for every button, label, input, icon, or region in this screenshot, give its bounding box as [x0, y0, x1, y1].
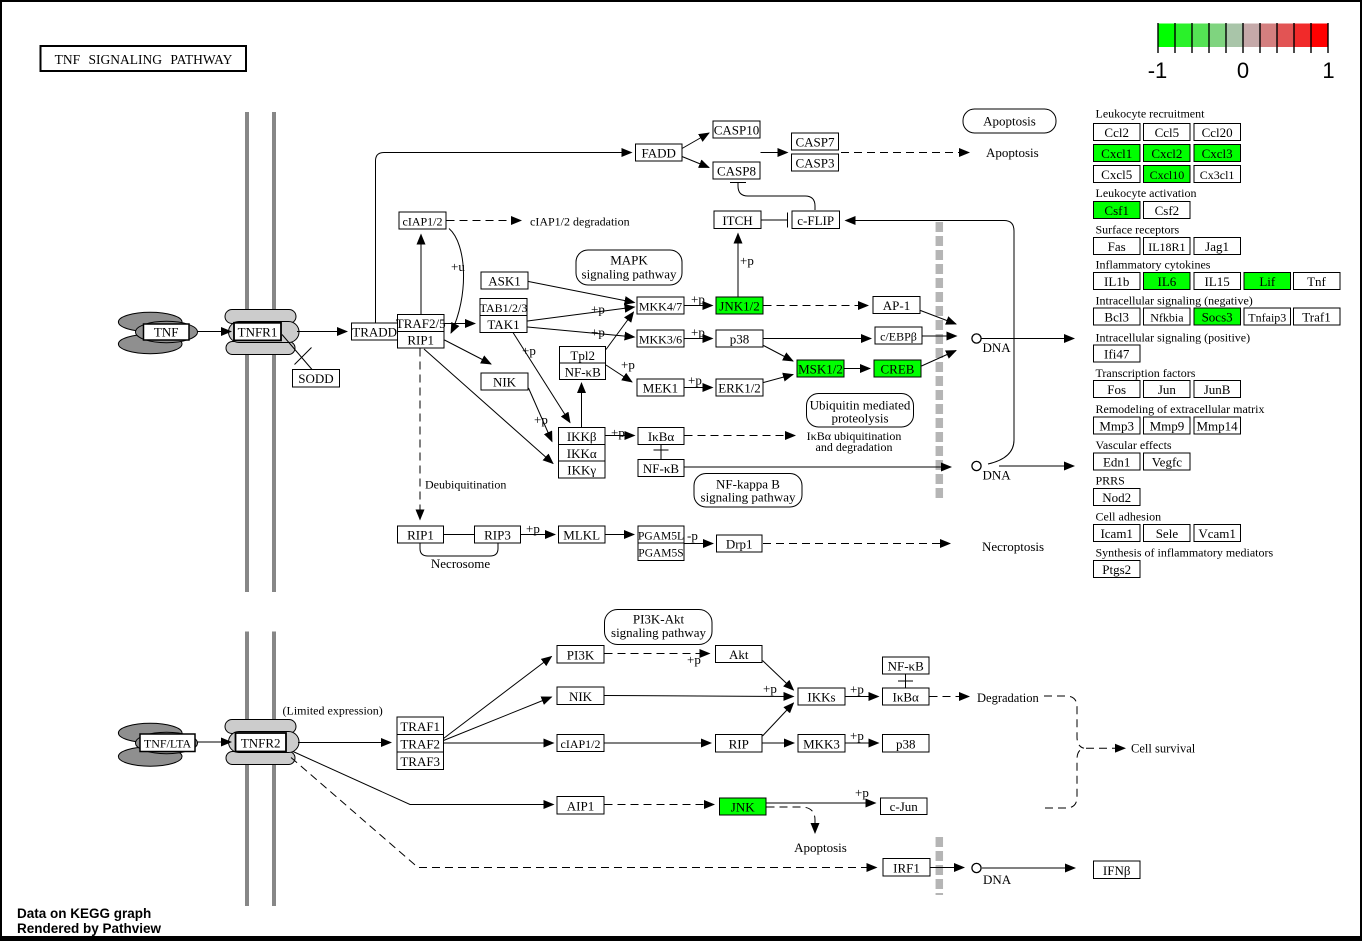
nuclear membrane upper (gray dashed bar) — [936, 222, 944, 501]
box IL18R1 — [1144, 238, 1191, 255]
svg-text:signaling pathway: signaling pathway — [582, 267, 677, 282]
svg-text:Cell survival: Cell survival — [1131, 742, 1196, 756]
svg-text:ITCH: ITCH — [722, 213, 752, 228]
svg-text:Sele: Sele — [1156, 526, 1179, 541]
box IFNb — [1094, 861, 1141, 879]
box Fas — [1094, 238, 1141, 255]
arrow FADD to CASP8 — [682, 157, 709, 168]
svg-text:Apoptosis: Apoptosis — [794, 840, 847, 855]
svg-text:DNA: DNA — [983, 340, 1012, 355]
arrow JNK1/2 up to ITCH — [737, 234, 739, 298]
svg-text:MLKL: MLKL — [563, 528, 600, 543]
box Cxcl1 — [1094, 145, 1141, 162]
svg-text:Icam1: Icam1 — [1100, 526, 1132, 541]
svg-text:TRAF1: TRAF1 — [400, 719, 440, 734]
box CASP10 — [713, 121, 760, 138]
box p38 — [716, 330, 763, 347]
label IkBa ubiquitination and degradation — [807, 429, 902, 454]
box Mmp14 — [1194, 417, 1241, 434]
arrow FADD to CASP10 — [682, 133, 709, 149]
arrow TAK1 to MKK4/7 — [528, 307, 635, 321]
box CASP3 — [792, 154, 839, 171]
box MKK4/7 — [637, 297, 684, 314]
arrow Tpl2 to MEK1 — [606, 365, 632, 382]
box Nfkbia — [1144, 308, 1191, 325]
box CASP7 — [792, 133, 839, 150]
box NF-kB — [638, 459, 684, 476]
box p38 (lower) — [883, 735, 930, 753]
box AP-1 — [873, 297, 920, 314]
svg-text:+p: +p — [522, 343, 536, 358]
necrosome bracket — [420, 544, 498, 557]
svg-text:-p: -p — [687, 528, 698, 543]
svg-text:IL15: IL15 — [1204, 274, 1229, 289]
box Cxcl3 — [1194, 145, 1241, 162]
svg-text:+p: +p — [763, 681, 777, 696]
box Traf1 — [1293, 308, 1340, 325]
box IRF1 — [883, 859, 930, 877]
box CASP8 — [713, 162, 760, 179]
color key bar — [1158, 23, 1328, 53]
arrow RIP to IKKs — [763, 703, 794, 736]
arrow MSK1/2 to CREB — [845, 368, 871, 370]
arrow p38 to c/EBPb — [764, 338, 872, 340]
svg-text:Mmp14: Mmp14 — [1197, 419, 1239, 434]
curve +u cIAP1/2 to RIP1 — [449, 229, 464, 334]
box Ifi47 — [1094, 345, 1141, 362]
svg-text:p38: p38 — [730, 332, 750, 347]
svg-text:p38: p38 — [896, 737, 916, 752]
svg-text:Intracellular signaling (posit: Intracellular signaling (positive) — [1096, 331, 1251, 345]
svg-text:Rendered by Pathview: Rendered by Pathview — [17, 921, 162, 936]
box NF-kB (lower) — [883, 657, 930, 674]
arrow ERK1/2 to MSK1/2 — [764, 375, 794, 383]
svg-text:Apoptosis: Apoptosis — [986, 145, 1039, 160]
wire TNFR1 to SODD (blocked) — [282, 335, 312, 370]
svg-text:ERK1/2: ERK1/2 — [718, 381, 761, 396]
svg-text:TAB1/2/3: TAB1/2/3 — [480, 301, 528, 315]
svg-text:IKKγ: IKKγ — [567, 463, 596, 478]
arrow cIAP1/2 to RIP — [605, 742, 712, 744]
dashed arrow AIP1 to JNK — [605, 804, 715, 806]
svg-text:Deubiquitination: Deubiquitination — [425, 478, 506, 492]
svg-text:NIK: NIK — [493, 375, 517, 390]
svg-text:Cxcl1: Cxcl1 — [1101, 146, 1132, 161]
box TAK1 — [480, 316, 527, 333]
svg-text:Vcam1: Vcam1 — [1198, 526, 1236, 541]
box IKKa — [559, 444, 606, 461]
svg-text:NIK: NIK — [569, 689, 593, 704]
svg-text:c-Jun: c-Jun — [890, 799, 919, 814]
svg-text:IKKα: IKKα — [567, 446, 597, 461]
svg-text:+p: +p — [740, 253, 754, 268]
box Akt — [716, 646, 763, 663]
arrow TNF to TNFR1 — [198, 331, 232, 333]
wire DNA to c-FLIP (return line) — [846, 221, 1015, 465]
svg-text:MKK4/7: MKK4/7 — [639, 300, 682, 314]
box NIK — [481, 373, 528, 390]
svg-text:Socs3: Socs3 — [1202, 310, 1233, 325]
inhibition NF-kB to IkBa — [898, 675, 913, 688]
svg-text:MAPK: MAPK — [610, 253, 648, 268]
svg-text:DNA: DNA — [983, 872, 1012, 887]
box Edn1 — [1094, 453, 1141, 470]
svg-text:Surface receptors: Surface receptors — [1096, 223, 1180, 237]
svg-text:Cxcl10: Cxcl10 — [1150, 168, 1185, 182]
svg-text:Inflammatory cytokines: Inflammatory cytokines — [1096, 258, 1211, 272]
svg-text:IKKβ: IKKβ — [567, 429, 597, 444]
box c/EBPb — [875, 327, 922, 344]
svg-text:Cx3cl1: Cx3cl1 — [1200, 168, 1235, 182]
arrow Tpl2 to MKK4/7 — [606, 312, 634, 350]
box ASK1 — [481, 272, 528, 289]
arrow TNFR2 to TRAF complex — [298, 742, 391, 744]
arrow IKKb up to NF-kB(Tpl2) — [581, 383, 583, 428]
box cIAP1/2 (lower) — [557, 735, 604, 752]
arrow TRAF to cIAP1/2 — [444, 742, 554, 744]
svg-text:cIAP1/2 degradation: cIAP1/2 degradation — [530, 215, 630, 229]
arrow p38 to MSK1/2 — [764, 346, 794, 362]
svg-text:MSK1/2: MSK1/2 — [798, 362, 843, 377]
svg-text:Csf1: Csf1 — [1104, 203, 1129, 218]
svg-text:TRAF2/5: TRAF2/5 — [396, 316, 446, 331]
wire TNFR2 to AIP1 — [293, 752, 554, 805]
svg-text:Cxcl2: Cxcl2 — [1151, 146, 1182, 161]
box Lif — [1244, 273, 1291, 290]
svg-text:FADD: FADD — [641, 146, 675, 161]
box Vcam1 — [1194, 525, 1241, 542]
svg-text:RIP1: RIP1 — [407, 333, 434, 348]
box RIP — [716, 735, 763, 753]
arrow IKKs to IkBa — [846, 696, 879, 698]
box Icam1 — [1094, 525, 1141, 542]
arrow JNK to c-Jun — [767, 802, 876, 804]
box c-FLIP — [792, 211, 840, 229]
svg-text:Csf2: Csf2 — [1155, 203, 1180, 218]
box Tnf — [1293, 273, 1340, 290]
svg-text:Degradation: Degradation — [977, 691, 1040, 705]
svg-text:Data on KEGG graph: Data on KEGG graph — [17, 906, 151, 921]
arrow PGAM5 to Drp1 — [685, 543, 714, 545]
svg-text:Remodeling of extracellular ma: Remodeling of extracellular matrix — [1096, 402, 1265, 416]
box RIP1 (necroptosis) — [398, 526, 444, 543]
svg-text:AP-1: AP-1 — [883, 298, 910, 313]
svg-text:CASP10: CASP10 — [714, 123, 760, 138]
box AIP1 — [557, 797, 604, 815]
box cIAP1/2 — [399, 212, 446, 229]
svg-text:MKK3: MKK3 — [803, 737, 840, 752]
svg-text:+p: +p — [850, 728, 864, 743]
svg-text:Ptgs2: Ptgs2 — [1102, 562, 1131, 577]
dashed arrow JNK to Apoptosis — [767, 807, 816, 833]
arrow AP-1 to DNA — [921, 311, 957, 325]
arrow MKK3/6 to p38 — [685, 338, 713, 340]
node DNA 1 circle — [972, 334, 981, 343]
box NF-kB (Tpl2 complex) — [560, 363, 606, 380]
svg-text:ASK1: ASK1 — [488, 274, 521, 289]
svg-text:Leukocyte recruitment: Leukocyte recruitment — [1096, 107, 1206, 121]
box Mmp9 — [1144, 417, 1191, 434]
svg-text:+p: +p — [526, 521, 540, 536]
title box TNF SIGNALING PATHWAY — [41, 46, 247, 71]
box TNFR2 — [236, 733, 287, 752]
svg-text:Drp1: Drp1 — [726, 537, 753, 552]
svg-text:Lif: Lif — [1259, 274, 1276, 289]
box NIK (lower) — [557, 687, 604, 705]
svg-text:Bcl3: Bcl3 — [1104, 310, 1129, 325]
box SODD — [293, 370, 340, 388]
nuclear membrane lower (gray dashed bar) — [936, 837, 944, 895]
svg-text:MKK3/6: MKK3/6 — [639, 333, 682, 347]
wire TRADD up to FADD — [376, 153, 632, 324]
svg-text:Edn1: Edn1 — [1103, 455, 1130, 470]
svg-text:+p: +p — [687, 652, 701, 667]
box Cxcl5 — [1094, 166, 1141, 183]
box IKKb — [559, 428, 606, 445]
svg-text:Necrosome: Necrosome — [431, 556, 490, 571]
box TRAF3 — [397, 752, 444, 770]
box PGAM5S — [638, 543, 684, 561]
svg-text:CREB: CREB — [881, 362, 915, 377]
svg-text:1: 1 — [1322, 58, 1334, 83]
svg-text:Ifi47: Ifi47 — [1104, 347, 1130, 362]
box Cx3cl1 — [1194, 166, 1241, 183]
ligand TNF (trimer ellipses) — [118, 312, 197, 353]
svg-text:+p: +p — [691, 325, 705, 340]
inhibition ITCH to c-FLIP — [762, 213, 788, 228]
svg-text:+p: +p — [621, 357, 635, 372]
svg-text:JNK: JNK — [731, 800, 755, 815]
box ITCH — [714, 211, 761, 229]
box IKKs — [798, 688, 845, 705]
svg-text:Tpl2: Tpl2 — [570, 348, 595, 363]
box MKK3 — [798, 735, 845, 753]
arrow DNA 2 to gene panel — [999, 465, 1074, 467]
box Drp1 — [717, 535, 763, 552]
cell membrane lower (two gray bars) — [245, 632, 249, 907]
arrow TNF/LTA to TNFR2 — [198, 741, 232, 743]
arrow IRF1 to DNA — [931, 867, 965, 869]
box Tnfaip3 — [1244, 308, 1291, 325]
dashed arrow CASP7 to Apoptosis — [841, 152, 969, 154]
box IkBa (lower) — [883, 688, 930, 705]
svg-text:IRF1: IRF1 — [893, 861, 920, 876]
receptor TNFR2 (gray shapes) — [225, 720, 299, 765]
box Csf2 — [1144, 202, 1191, 219]
brace to Cell survival (dashed) — [1044, 696, 1125, 808]
svg-text:RIP3: RIP3 — [484, 528, 511, 543]
arrow MEK1 to ERK1/2 — [685, 387, 713, 389]
svg-text:(Limited expression): (Limited expression) — [283, 704, 383, 718]
box Fos — [1094, 381, 1141, 398]
svg-text:PGAM5S: PGAM5S — [638, 548, 683, 560]
dashed arrow PI3K to Akt — [605, 653, 710, 655]
arrow NF-kB to DNA — [685, 466, 952, 468]
node DNA 3 circle — [972, 863, 981, 872]
box TRAF2 — [397, 735, 444, 753]
node DNA 2 circle — [972, 461, 981, 470]
svg-text:Transcription factors: Transcription factors — [1096, 366, 1196, 380]
box Cxcl10 — [1144, 166, 1191, 183]
receptor TNFR1 (gray shapes) — [225, 310, 299, 355]
wire RIP1-RIP3 — [444, 534, 475, 536]
box Jun — [1144, 381, 1191, 398]
arrow MKK3 to p38 — [846, 742, 879, 744]
arrow IKKb to IkBa — [606, 435, 635, 437]
svg-text:Vascular effects: Vascular effects — [1096, 438, 1172, 452]
svg-text:JNK1/2: JNK1/2 — [719, 299, 759, 314]
svg-text:PGAM5L: PGAM5L — [638, 531, 684, 543]
svg-text:MEK1: MEK1 — [643, 381, 678, 396]
svg-text:TRAF2: TRAF2 — [400, 737, 440, 752]
arrow CREB to DNA — [922, 351, 957, 367]
arrow TAK1 to IKKb — [513, 333, 570, 423]
box IL15 — [1194, 273, 1241, 290]
pathway box NF-kappa B signaling pathway — [694, 474, 802, 508]
arrow CASP8 to CASP7 — [761, 152, 788, 154]
svg-text:+p: +p — [855, 785, 869, 800]
svg-text:+u: +u — [451, 259, 465, 274]
box CREB (green) — [874, 360, 921, 377]
box Sele — [1144, 525, 1191, 542]
box Vegfc — [1144, 453, 1191, 470]
pathway box Apoptosis — [963, 109, 1056, 133]
svg-text:+p: +p — [591, 302, 605, 317]
svg-text:Vegfc: Vegfc — [1152, 455, 1183, 470]
box Socs3 — [1194, 308, 1241, 325]
arrow TRAF2/5 up to cIAP1/2 — [420, 235, 422, 315]
svg-text:IL6: IL6 — [1158, 274, 1177, 289]
svg-text:0: 0 — [1237, 58, 1249, 83]
inhibition IkBa to NF-kB — [654, 444, 669, 459]
svg-text:Fos: Fos — [1107, 382, 1126, 397]
svg-text:NF-κB: NF-κB — [888, 659, 924, 674]
svg-text:Ccl20: Ccl20 — [1202, 125, 1233, 140]
svg-text:CASP7: CASP7 — [795, 135, 835, 150]
box Mmp3 — [1094, 417, 1141, 434]
box TNFR1 — [234, 323, 281, 341]
svg-text:IκBα: IκBα — [893, 690, 920, 705]
svg-text:Nfkbia: Nfkbia — [1150, 311, 1184, 325]
box Csf1 — [1094, 202, 1141, 219]
svg-text:Ccl5: Ccl5 — [1155, 125, 1180, 140]
svg-text:PRRS: PRRS — [1096, 474, 1125, 488]
box MEK1 — [637, 379, 684, 396]
box Tpl2 — [560, 347, 606, 364]
arrow c/EBPb to DNA — [923, 335, 957, 337]
arrow NIK to IKKs — [605, 696, 794, 697]
box Bcl3 — [1094, 308, 1141, 325]
svg-text:JunB: JunB — [1204, 382, 1231, 397]
pathway box Ubiquitin mediated proteolysis — [807, 394, 914, 428]
svg-text:Jun: Jun — [1158, 382, 1177, 397]
svg-text:+p: +p — [850, 682, 864, 697]
arrow DNA 3 to IFNb — [982, 867, 1075, 869]
svg-text:Nod2: Nod2 — [1102, 490, 1131, 505]
box Ccl2 — [1094, 124, 1141, 141]
box PGAM5L — [638, 526, 684, 543]
svg-text:RIP: RIP — [729, 737, 749, 752]
pathway box MAPK signaling pathway — [576, 250, 682, 285]
svg-text:TNF SIGNALING PATHWAY: TNF SIGNALING PATHWAY — [55, 52, 233, 67]
svg-text:Cxcl5: Cxcl5 — [1101, 167, 1132, 182]
svg-text:Cell adhesion: Cell adhesion — [1096, 510, 1162, 524]
svg-text:signaling pathway: signaling pathway — [611, 625, 706, 640]
svg-text:and degradation: and degradation — [816, 440, 893, 454]
svg-text:Necroptosis: Necroptosis — [982, 539, 1044, 554]
svg-text:+p: +p — [591, 325, 605, 340]
svg-text:SODD: SODD — [298, 371, 333, 386]
svg-text:signaling pathway: signaling pathway — [701, 490, 796, 505]
box TRADD — [352, 323, 399, 340]
arrow TRAF to NIK — [444, 697, 552, 741]
cell membrane upper (two gray bars) — [245, 112, 249, 592]
dashed arrow IkBa to Degradation — [930, 696, 970, 698]
svg-text:Mmp3: Mmp3 — [1099, 419, 1134, 434]
dashed wire TNFR2 to IRF1 — [291, 758, 877, 868]
box IKKg — [559, 461, 606, 478]
arrow RIP to MKK3 — [763, 742, 795, 744]
arrow TRAF to PI3K — [444, 657, 552, 739]
svg-text:Intracellular signaling (negat: Intracellular signaling (negative) — [1096, 294, 1253, 308]
svg-text:CASP8: CASP8 — [717, 164, 756, 179]
box MSK1/2 (green) — [797, 360, 844, 377]
arrow TRAF2/5 to TAK1 — [445, 323, 476, 325]
box TNF/LTA — [140, 734, 195, 752]
svg-text:Traf1: Traf1 — [1302, 310, 1330, 325]
svg-text:c/EBPβ: c/EBPβ — [880, 330, 917, 344]
svg-text:AIP1: AIP1 — [567, 799, 594, 814]
svg-text:+p: +p — [611, 425, 625, 440]
svg-text:IL1b: IL1b — [1104, 274, 1129, 289]
svg-text:IFNβ: IFNβ — [1103, 863, 1131, 878]
box RIP1 (complex) — [398, 331, 445, 348]
box JunB — [1194, 381, 1241, 398]
box FADD — [636, 144, 683, 161]
svg-text:TNFR1: TNFR1 — [238, 325, 278, 340]
box RIP3 — [475, 526, 521, 543]
svg-text:Tnf: Tnf — [1307, 274, 1326, 289]
box Ccl5 — [1144, 124, 1191, 141]
svg-text:TNF/LTA: TNF/LTA — [144, 737, 192, 751]
svg-text:CASP3: CASP3 — [795, 156, 834, 171]
cross mark on SODD wire — [295, 348, 312, 365]
box JNK1/2 (green) — [716, 297, 763, 314]
svg-text:NF-κB: NF-κB — [643, 461, 679, 476]
arrow NIK to IKK — [529, 388, 553, 442]
dashed arrow IkBa ubiquitination — [685, 435, 796, 437]
arrow Akt to IKKs — [763, 661, 794, 691]
svg-text:TAK1: TAK1 — [487, 317, 519, 332]
arrow RIP1 to IKKg — [424, 349, 553, 464]
svg-text:proteolysis: proteolysis — [831, 411, 888, 426]
svg-text:c-FLIP: c-FLIP — [797, 213, 834, 228]
svg-text:Cxcl3: Cxcl3 — [1202, 146, 1233, 161]
box ERK1/2 — [716, 379, 763, 396]
box TNF — [144, 324, 190, 340]
box Ptgs2 — [1094, 561, 1141, 578]
svg-text:PI3K: PI3K — [567, 648, 595, 663]
box MKK3/6 — [637, 330, 684, 347]
dashed arrow JNK1/2 to AP-1 — [764, 305, 869, 307]
dashed arrow Drp1 to Necroptosis — [763, 543, 950, 545]
svg-text:Synthesis of inflammatory medi: Synthesis of inflammatory mediators — [1096, 546, 1274, 560]
box Jag1 — [1194, 238, 1241, 255]
arrow ASK1 to MKK4/7 — [529, 282, 635, 303]
svg-text:IKKs: IKKs — [807, 690, 835, 705]
svg-text:+p: +p — [691, 292, 705, 307]
svg-text:Apoptosis: Apoptosis — [983, 114, 1036, 129]
